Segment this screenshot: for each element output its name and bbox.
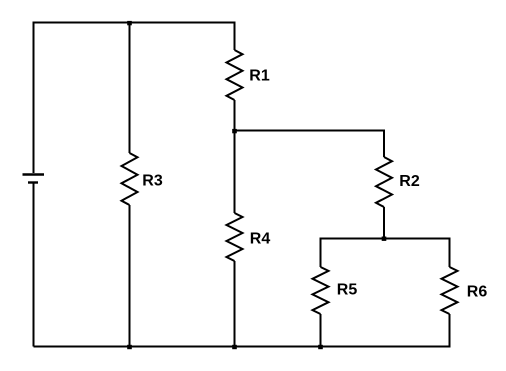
- wire R6 bottom lead: [449, 314, 451, 347]
- node junction bottom R3: [127, 345, 132, 349]
- wire R1 bottom lead: [234, 100, 236, 131]
- svg-text:R1: R1: [249, 68, 270, 85]
- node junction top at R3: [127, 21, 132, 25]
- wire R3 top lead: [129, 23, 131, 154]
- resistor R2: [376, 157, 392, 207]
- svg-text:R6: R6: [467, 284, 488, 301]
- wire R3 bottom lead: [129, 205, 131, 347]
- battery V1: [23, 175, 45, 183]
- resistor R6: [442, 267, 458, 314]
- resistor R1: [227, 50, 243, 100]
- battery long plate: [23, 173, 45, 175]
- svg-text:R5: R5: [337, 282, 358, 299]
- resistor R4: [227, 213, 243, 261]
- wire bottom rail: [34, 346, 451, 348]
- wire R4 bottom lead: [234, 261, 236, 347]
- svg-text:R4: R4: [250, 231, 271, 248]
- wire R4 top lead: [234, 131, 236, 214]
- svg-text:R3: R3: [142, 173, 163, 190]
- wire R2 bottom lead: [383, 207, 385, 239]
- svg-text:R2: R2: [399, 173, 420, 190]
- wire battery top lead up left side and top wire to R1: [34, 23, 235, 174]
- node junction R2/lower rail: [382, 237, 387, 241]
- node junction R1/R4/middle rail: [232, 129, 237, 133]
- node junction bottom R4: [232, 345, 237, 349]
- wire R5 bottom lead: [320, 314, 322, 347]
- resistor R5: [313, 267, 329, 314]
- battery short plate: [28, 181, 38, 183]
- wire middle rail to R2: [235, 131, 385, 158]
- node junction bottom R5: [318, 345, 323, 349]
- wire lower rail R5 to R6: [321, 239, 450, 268]
- wire battery bottom lead: [33, 183, 35, 347]
- resistor R3: [122, 153, 138, 205]
